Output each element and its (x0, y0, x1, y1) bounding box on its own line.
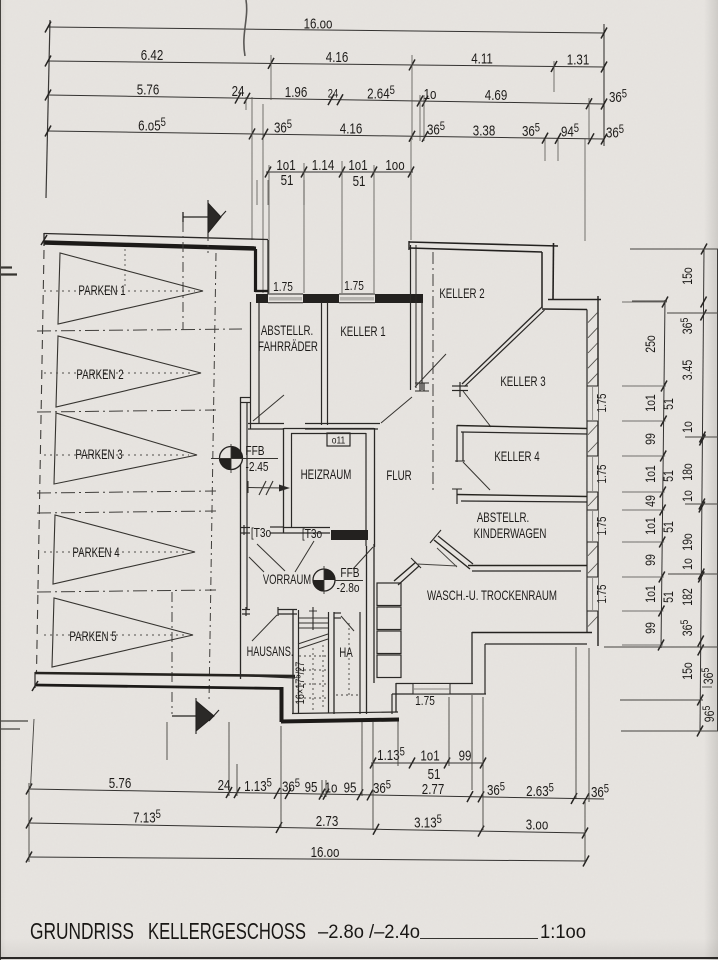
vorraum north wall + door jambs (240, 527, 250, 529)
bottom page edge (0, 957, 718, 959)
parking stall triangle PARKEN 4 (53, 515, 195, 584)
east wall of keller1 (x410-422) (410, 245, 412, 390)
right chain C cropped at edge (717, 249, 718, 731)
bottom dim row 5.76/24/1.135/365/95/10/95/365/2.77/365/2.635/365 (29, 789, 604, 799)
dotted service line x125 (124, 249, 126, 289)
dim row 6.42/4.16/4.11/1.31 (48, 61, 604, 67)
HA room east wall (359, 612, 361, 714)
bottom dim row 1.135/101/99 + 51 (371, 762, 484, 764)
FFB level marker -2.80 (313, 569, 335, 591)
kinderwagen/wasch diagonal wall (434, 540, 470, 569)
parking dash-dot vertical x433 (432, 252, 434, 490)
parking dash-dot vertical x183 (north arrow line) (182, 222, 184, 330)
parking stall triangle PARKEN 2 (56, 336, 201, 407)
wasch south wall y632-645 (472, 632, 592, 634)
stair treads dotted (299, 655, 328, 657)
bottom dim row 16.00 (29, 857, 586, 861)
right horizontal connectors (630, 248, 718, 250)
parking dash-dot separator y411 (37, 410, 216, 412)
stair dotted centreline (312, 648, 314, 710)
north arrow bottom (172, 715, 214, 717)
parking dash-dot separator y591 (37, 590, 216, 592)
door swing bike room (253, 395, 284, 421)
door swings vorraum (257, 544, 285, 571)
door swing keller1 (381, 397, 412, 423)
parking dash-dot separator y492 (37, 491, 216, 493)
heizraum walls (283, 428, 285, 533)
keller2 north wall (409, 242, 558, 246)
west wall of bike room (250, 302, 252, 429)
dim row 6.055/365/4.16/365/3.38/365/945/365 (48, 131, 604, 139)
door swing hausans (252, 615, 277, 641)
parking dash-dot vertical x208 below arrow (207, 233, 209, 253)
door swing flur-keller2 (415, 354, 446, 387)
parking dash-dot separator y330 (37, 329, 242, 331)
vorraum south wall / hausans north wall (242, 609, 250, 611)
door swing keller3 (463, 391, 491, 427)
bottom dim row 7.135/2.73/3.135/3.00 (29, 823, 585, 833)
extension verticals from top rows down (270, 55, 272, 100)
parking dashed vertical x216 (209, 253, 216, 702)
parking dash-dot separator y512 (37, 511, 216, 513)
dim block top: extension line right x=604 (603, 24, 605, 146)
door swing keller4 (463, 462, 490, 490)
bike room / keller1 north wall band with windows (256, 294, 423, 303)
stair top entry divider (312, 607, 314, 630)
keller2 northeast step wall (541, 252, 543, 308)
parking boundary dashed left edge (37, 250, 45, 672)
FFB level marker -2.45 (220, 447, 243, 470)
HA dotted service lines (348, 623, 350, 695)
level pointer arrow west corridor (247, 481, 249, 493)
door swing west wall lower (249, 557, 264, 572)
heizraum heavy south wall segment (331, 530, 368, 540)
south wall step down right of HAUSANS (280, 687, 284, 722)
stair cut line double diagonal (298, 634, 328, 644)
north arrow top (183, 216, 221, 218)
wasch west diagonal wall (394, 562, 416, 581)
left margin section marks (0, 266, 12, 268)
keller2/keller3 diagonal wall (462, 307, 542, 384)
wasch doorway lines (417, 564, 457, 566)
west exterior wall x240-247 (240, 397, 242, 679)
window 1.75 in south wall (413, 684, 450, 694)
wasch south-west wall steps (396, 683, 473, 685)
wall keller4/kinderwagen y494-502 (457, 495, 587, 497)
retaining wall top (parking) (44, 234, 268, 240)
right dim chain B x~701 (700, 249, 704, 731)
wall keller3/keller4 y425-432 (457, 426, 587, 429)
parking stall triangle PARKEN 5 (52, 598, 193, 667)
retaining wall step down to bike room (267, 240, 269, 294)
dim row 5.76/24/1.96/24/2.645/10/4.69/365 (48, 95, 604, 104)
HA door swing + jamb (334, 612, 341, 614)
bottom extension verticals (28, 783, 30, 862)
oil tank box (327, 433, 350, 446)
stair shaft walls (292, 610, 294, 714)
parking stall triangle PARKEN 3 (54, 413, 197, 484)
keller3 tee wall stub (452, 385, 468, 387)
dim row 101/1.14/101/1.00 (266, 171, 413, 173)
dim block top: extension line left (46, 20, 50, 198)
south wall of bike room/keller1 y423-432 (248, 423, 284, 425)
left page edge (0, 0, 1, 960)
parking stall triangle PARKEN 1 (58, 253, 203, 324)
east wall window openings and piers (588, 386, 599, 421)
right dim chain A x~663 (661, 300, 665, 648)
parking dash-dot vertical x172 lower (171, 592, 173, 714)
wall between bike room and keller1 (321, 302, 323, 425)
dim row 16.00 (top) (48, 27, 604, 33)
east exterior wall x587-598 (586, 310, 588, 633)
hausans west wall + floor (240, 676, 295, 679)
scan squiggle artifact top centre (244, 0, 247, 56)
stair treads solid (299, 617, 328, 619)
washer/dryer boxes wasch room (373, 544, 375, 683)
wasch north wall y565-571 (468, 565, 587, 567)
bottom retaining wall (parking south) (35, 673, 295, 676)
